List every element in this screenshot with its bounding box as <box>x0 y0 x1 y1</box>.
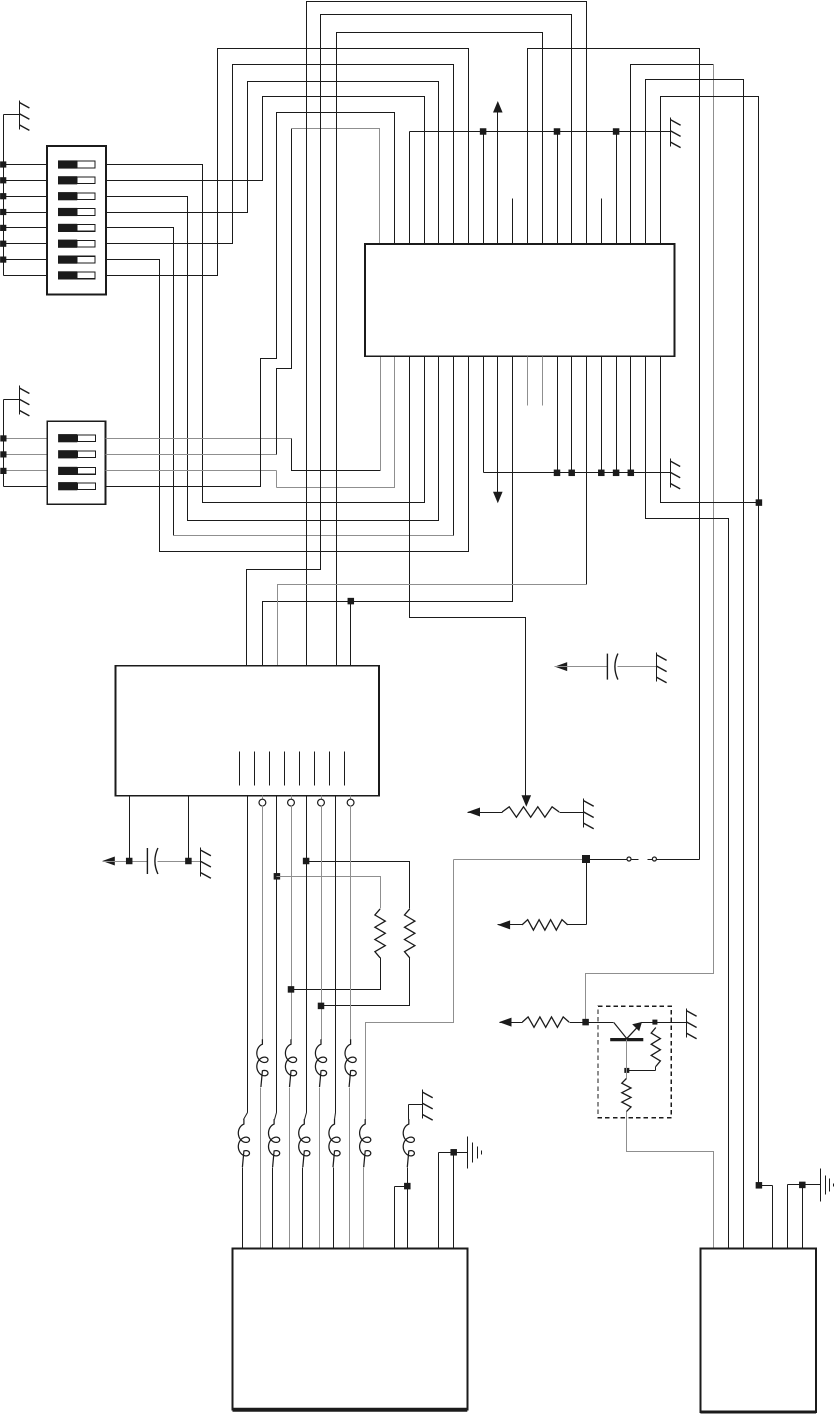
capacitor C2 <box>147 848 158 874</box>
ground G6 (chassis, C2) <box>201 848 211 879</box>
wire ground bus of SW2 <box>4 400 48 487</box>
DIP switch SW1 (8-position) <box>47 146 106 295</box>
inductor L10 <box>403 1119 414 1167</box>
wire U2 pin to Ra top junction and L6 (row2 coil 2) <box>275 796 277 1120</box>
junction Q1-e <box>652 1020 657 1025</box>
wire net S7 (SW1.7 to U1 bottom pin 7) <box>107 260 469 552</box>
wire U1 bottom pin to GB2-c <box>601 357 603 473</box>
transistor Q1 base bar <box>610 1038 643 1041</box>
wire ground to L10 <box>409 1105 423 1120</box>
wire net P410 (U1 bottom pin 3 to potentiometer wiper) <box>410 357 526 797</box>
wire SW2 pin 1 to ground bus <box>4 438 48 440</box>
wire Ra bottom link <box>292 958 381 990</box>
ground G7 (chassis, RV1) <box>584 799 594 829</box>
net arrow A5 (R1 left) <box>498 920 523 929</box>
junction GB2-d <box>613 470 620 477</box>
wire U1 bottom pin to GB2-d <box>616 357 618 473</box>
switch actuators SW2 <box>58 434 95 490</box>
ground G2 (chassis, left) <box>4 386 30 416</box>
wire net S5 (SW1.5 to U1 bottom pin 6) <box>107 228 454 536</box>
junction SW1 pin 4 <box>0 209 6 215</box>
wire J2-a to pin <box>759 1186 773 1249</box>
inductor L5 <box>238 1119 249 1167</box>
junction SW1 pin 2 <box>0 177 6 183</box>
pin circle U2 out 4 <box>347 796 354 806</box>
wire net W4 (SW2.4 to U1 top pin 2) <box>106 113 395 487</box>
connector J2 <box>700 1248 816 1412</box>
pin stub U1 bottom pin 12 (n.c.) <box>542 357 544 406</box>
ground G5 (chassis, C1) <box>657 653 667 683</box>
junction GB2-e <box>628 470 635 477</box>
wire net T2 (U1 top pin 14 to U2 top pin 1) <box>247 15 572 666</box>
wire R3 bottom to node <box>627 1067 656 1071</box>
ground G3 (chassis, bus1 end) <box>671 118 681 148</box>
junction C2-a <box>126 858 133 865</box>
wire L6 to J1 <box>272 1168 274 1249</box>
wire switch chain to L9 <box>366 860 454 1120</box>
wire L3 to J1 <box>319 1088 321 1249</box>
wire U1 top pin 8 to GB1 <box>483 132 485 245</box>
net arrow A6 (R2 left) <box>499 1018 523 1027</box>
wire SW2 pin 2 to ground bus <box>4 454 48 456</box>
wire S3 to T4 rail <box>648 859 700 861</box>
junction SW1 pin 6 <box>0 241 6 247</box>
wire branch to U2 top pin 6 <box>350 602 352 666</box>
wire net P660 (U1 bottom pin 20 to right rail) <box>661 357 759 503</box>
junction Ra-top <box>274 873 281 880</box>
pin circle U2 out 2 <box>288 796 295 806</box>
pin stub U1 top pin 10 (n.c.) <box>512 199 514 245</box>
IC U2 (driver) <box>116 666 379 796</box>
wire L9 to J1 <box>363 1168 365 1249</box>
ground G1 (chassis, top-left) <box>4 101 30 131</box>
wire L2 to J1 <box>289 1088 291 1249</box>
ground G4 (chassis, bus2 end) <box>670 459 680 489</box>
junction J2-a <box>756 1182 763 1189</box>
junction GB1-b <box>554 128 561 135</box>
wire net W3 (SW2.3 to U1 bottom pin 2) <box>106 357 395 488</box>
wire net W2 (SW2.2 to U1 top pin 1) <box>106 129 380 455</box>
wire U2 pin to L8 (row2 coil 4) <box>335 796 336 1120</box>
wire U2 pin to Rb top junction and L7 (row2 coil 3) <box>305 796 307 1120</box>
junction SW1 pin 3 <box>0 193 6 199</box>
inductor L4 (row1 coil 4) <box>345 1039 356 1087</box>
resistor R4 <box>622 1071 631 1112</box>
wire net S2 (SW1.2 to U1 top pin 4) <box>107 97 425 245</box>
wire net P645 (U1 bottom pin 19 to J2 pin 3) <box>646 357 729 1249</box>
wire Rb top feeder <box>307 862 410 909</box>
inductor L9 (row2 coil 5) <box>360 1119 371 1167</box>
wire SW1 pin 5 to ground bus <box>4 227 48 229</box>
wire L4 to J1 <box>349 1088 351 1249</box>
wire U2 circle pin 4 to L4 <box>350 806 352 1040</box>
switch S3 contact a <box>627 857 631 861</box>
wire net T4 (U1 top pin 11 to switch S3) <box>528 49 700 860</box>
junction SW1 pin 5 <box>0 225 6 231</box>
inductor L7 <box>299 1119 310 1167</box>
wire net P512 (U1 bottom pin 10 to U2 pins 2/6) <box>263 357 513 666</box>
switch S3 contact b <box>652 857 656 861</box>
wire Rb bottom link <box>322 958 410 1006</box>
wire U1 top pin 13 to GB1 <box>557 132 559 245</box>
junction J1 ground <box>450 1149 457 1156</box>
junction Rb-bottom <box>318 1003 325 1010</box>
ground G9 (chassis, Q1) <box>687 1009 697 1039</box>
pin circle U2 out 1 <box>259 796 266 806</box>
resistor R1 <box>522 920 587 930</box>
junction P512 <box>348 598 355 605</box>
capacitor C1 <box>607 654 618 680</box>
net arrow A4 (RV1 left) <box>468 808 503 817</box>
junction SW2 pin 1 <box>0 435 6 441</box>
DIP switch SW2 (4-position) <box>47 421 105 504</box>
wire L10 to junction <box>407 1168 409 1187</box>
wire to ground G9 <box>655 1022 687 1024</box>
resistor Ra <box>375 909 385 958</box>
wire R2 junction to Q1 base <box>586 1023 627 1039</box>
potentiometer RV1 <box>502 807 559 817</box>
wire L7 to J1 <box>302 1168 304 1249</box>
wire U2 circle pin 1 to L1 <box>262 806 264 1040</box>
resistor R3 <box>651 1028 660 1067</box>
resistor Rb <box>405 909 415 958</box>
wire net S6 (SW1.6 to U1 top pin 6) <box>107 65 454 245</box>
wire net T3 (U1 top pin 12 to U2 top pin 5) <box>337 33 543 666</box>
transistor Q1 emitter <box>627 1022 642 1039</box>
pin ticks inside U2 <box>240 752 345 786</box>
wire L10 junction down <box>407 1187 409 1249</box>
wire U2 bottom pin L2 <box>188 796 190 862</box>
connector J1 <box>233 1248 468 1409</box>
wire bridge B1 (U1 top pin 18 to right rail) <box>586 65 714 1023</box>
inductor L8 <box>329 1119 340 1167</box>
junction SW2 pin 3 <box>0 468 6 474</box>
wire ground bus GB1 <box>410 132 671 245</box>
wire Ra top feeder <box>277 877 381 909</box>
wire net S8 (SW1.8 to U1 top pin 7) <box>107 49 469 276</box>
wire Q1 collector <box>626 1040 628 1071</box>
wire U2 pin to L5 (row2 coil 1) <box>244 796 248 1120</box>
wire J2 riser c <box>788 1185 803 1249</box>
wire L1 to J1 <box>260 1088 262 1249</box>
wire SW1 pin 1 to ground bus <box>4 164 48 166</box>
wire SW1 pin 7 to ground bus <box>4 259 48 261</box>
wire SW1 pin 2 to ground bus <box>4 180 48 182</box>
wire U2 circle pin 3 to L3 <box>321 806 323 1040</box>
junction GB1-c <box>613 128 620 135</box>
junction SW2 pin 2 <box>0 451 6 457</box>
junction L10 <box>404 1183 411 1190</box>
wire SW1 pin 3 to ground bus <box>4 196 48 198</box>
wire C1 to ground <box>618 666 657 668</box>
wire net T1 (U1 top pin 15 to U2 top pin 4) <box>307 2 587 666</box>
junction S3 <box>582 855 590 863</box>
wire bridge B3 (U1 top pin 20 rail) <box>661 97 759 1186</box>
power arrow VCC <box>493 101 503 245</box>
wire net P586 (U1 bottom pin 15 to U2 top pin 3) <box>278 357 587 666</box>
wire R4 to J2 pin 1 <box>627 1112 714 1249</box>
switch actuators SW1 <box>58 160 95 279</box>
wire ground bus GB2 <box>484 357 671 473</box>
net arrow A3 (C2 left) <box>102 857 147 866</box>
wire L5 to J1 <box>242 1168 244 1249</box>
net arrow A2 (C1 left) <box>555 662 608 671</box>
wire U1 bottom pin to GB2-b <box>571 357 573 473</box>
wiper arrow RV1 <box>522 795 532 807</box>
wire ground bus of SW1 <box>4 115 48 276</box>
wire L8 to J1 <box>333 1168 335 1249</box>
ground G10 (signal, J1) <box>468 1137 482 1169</box>
inductor L3 (row1 coil 3) <box>315 1039 326 1087</box>
junction GB2-c <box>598 470 605 477</box>
ground G8 (chassis, L10) <box>423 1090 433 1121</box>
junction SW1 pin 1 <box>0 161 6 167</box>
pin stub U1 top pin 16 (n.c.) <box>601 199 603 245</box>
inductor L1 (row1 coil 1) <box>257 1039 268 1087</box>
wire SW2 pin 3 to ground bus <box>4 470 48 472</box>
junction Rb-top <box>303 858 310 865</box>
junction R2 <box>582 1019 589 1026</box>
wire U1 top pin 17 to GB1 <box>616 132 618 245</box>
wire net S4 (SW1.4 to U1 top pin 5) <box>107 82 439 245</box>
junction C2-b <box>185 858 192 865</box>
wire U2 circle pin 2 to L2 <box>291 806 293 1040</box>
wire Q1 emitter to ground node <box>642 1022 655 1024</box>
junction P660 <box>756 499 763 506</box>
wire bridge B2 (U1 top pin 19 to J2 pin 2) <box>646 80 744 1249</box>
wire C2 to ground <box>158 861 201 863</box>
junction GB1-a <box>480 128 487 135</box>
wire SW1 pin 6 to ground bus <box>4 243 48 245</box>
inductor L6 <box>269 1119 280 1167</box>
wire net S3 (SW1.3 to U1 bottom pin 5) <box>107 197 439 521</box>
wire RV1 to ground <box>560 812 584 814</box>
wire net S1 (SW1.1 to U1 bottom pin 4) <box>107 165 425 503</box>
junction GB2-b <box>568 470 575 477</box>
wire J2 riser d <box>803 1185 821 1249</box>
wire junction to S3 contact <box>587 859 639 861</box>
junction SW1 pin 7 <box>0 257 6 263</box>
IC U1 (main controller) <box>365 244 674 356</box>
inductor L2 (row1 coil 2) <box>285 1039 296 1087</box>
wire switch feed (gray) <box>454 859 587 861</box>
wire J1 riser b <box>454 1153 468 1249</box>
pin stub U1 bottom pin 11 (n.c.) <box>527 357 529 406</box>
wire U1 bottom pin to GB2-a <box>557 357 559 473</box>
wire U2 bottom pin L1 <box>129 796 131 862</box>
component box Q1 (dashed) <box>598 1006 671 1118</box>
junction Ra-bottom <box>288 986 295 993</box>
junction Q1-c <box>624 1068 629 1073</box>
wire J1 riser a <box>439 1153 454 1249</box>
wire SW1 pin 4 to ground bus <box>4 212 48 214</box>
wire U1 bottom pin to GB2-e <box>630 357 632 473</box>
net arrow A1 (U1 bottom pin 9) <box>493 357 503 504</box>
junction J2 ground <box>799 1182 806 1189</box>
wire L10 junction branch left <box>395 1187 408 1249</box>
wire net W1 (SW2.1 to U1 bottom pin 1) <box>106 357 381 471</box>
ground G11 (signal, J2) <box>821 1169 834 1202</box>
pin circle U2 out 3 <box>318 796 325 806</box>
wire junction down to R1 <box>586 860 588 925</box>
junction GB2-a <box>554 470 561 477</box>
resistor R2 <box>522 1017 585 1027</box>
